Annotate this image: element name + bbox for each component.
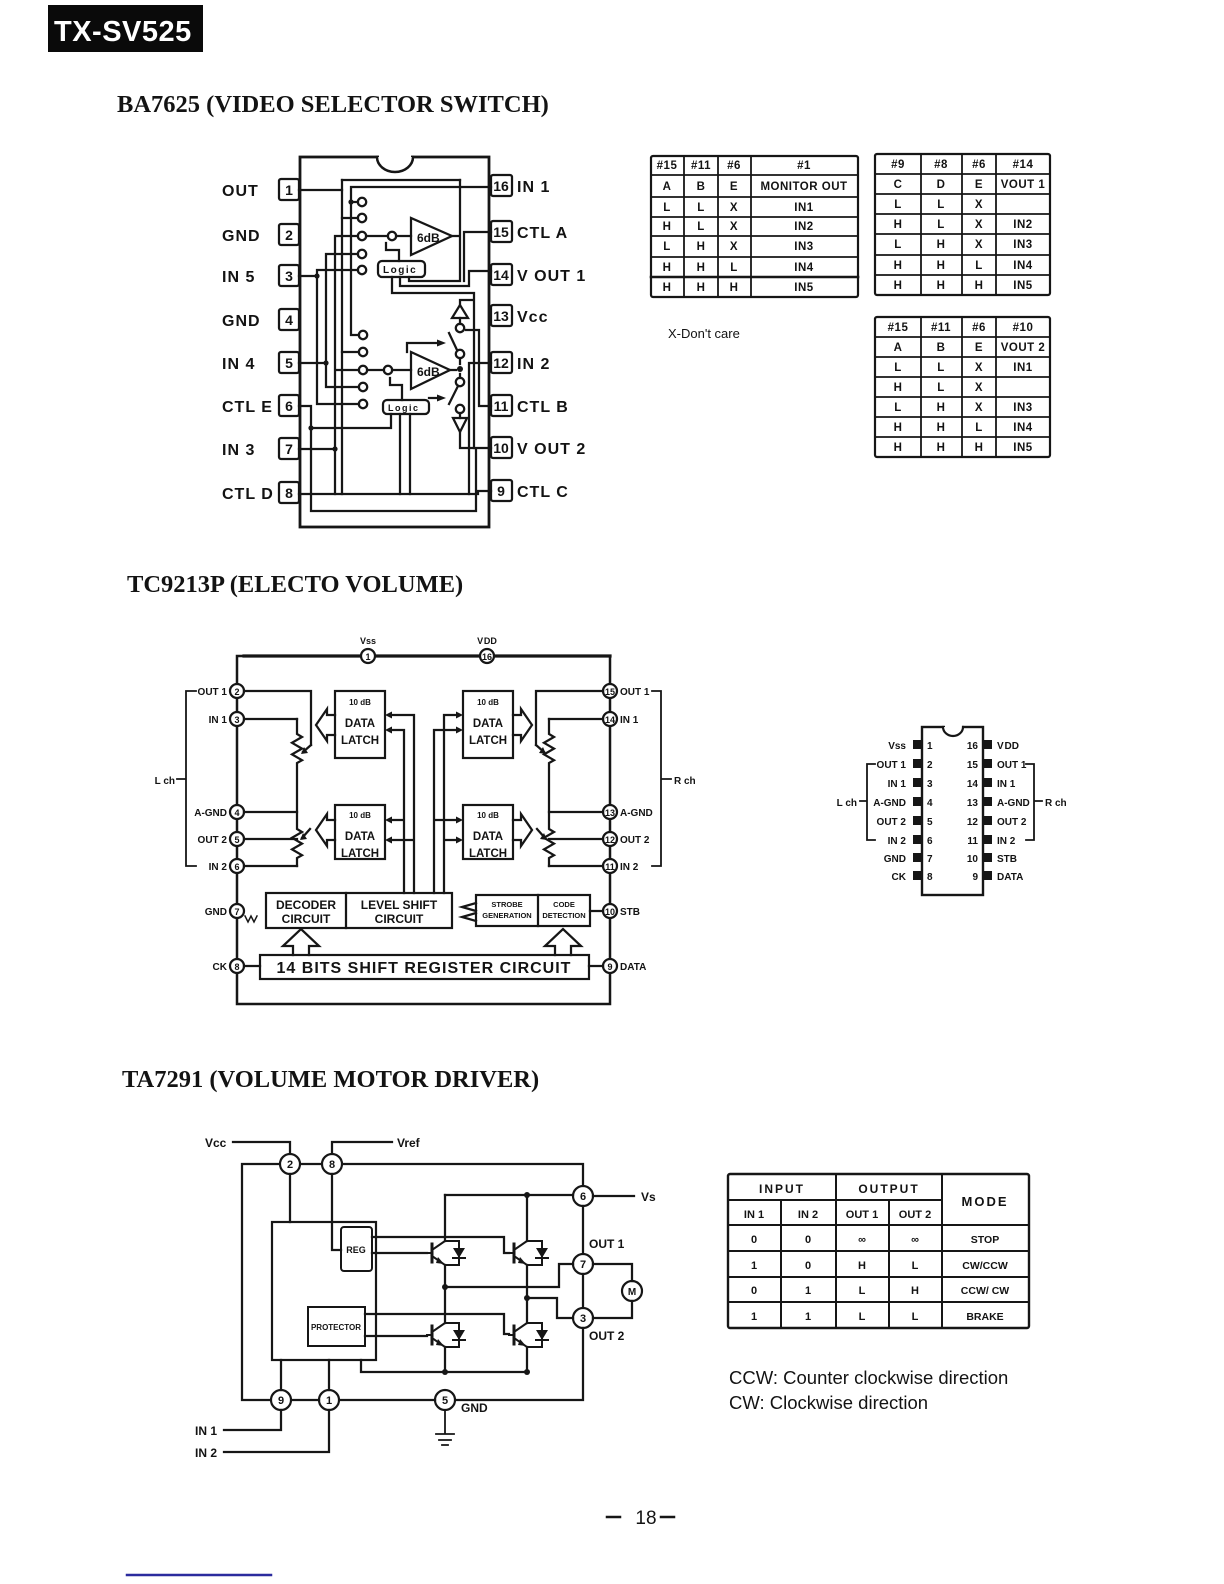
svg-text:IN2: IN2 <box>794 221 813 233</box>
transistor Q1 <box>427 1241 445 1265</box>
svg-text:CCW: Counter clockwise dire: CCW: Counter clockwise direction <box>729 1367 1008 1388</box>
pin 16 Vdd <box>480 649 494 663</box>
wire protector to Q4 base <box>365 1314 509 1334</box>
svg-text:IN 1: IN 1 <box>517 179 550 196</box>
svg-text:LEVEL SHIFT: LEVEL SHIFT <box>361 898 438 912</box>
pin 9 (DATA) right <box>603 959 646 973</box>
svg-text:IN5: IN5 <box>1013 442 1033 454</box>
svg-text:8: 8 <box>285 485 293 501</box>
arrow out of lower R latch <box>513 814 532 846</box>
svg-text:H: H <box>894 442 903 454</box>
ground squiggle at pin7 <box>245 916 257 922</box>
pin 3 (IN 1) dip left <box>888 778 933 790</box>
wire Vref to pin8 <box>332 1142 392 1154</box>
svg-text:OUT 1: OUT 1 <box>997 760 1027 771</box>
pin 16 (V&#8202;DD) dip right <box>967 740 1019 752</box>
arrows strobe to level shift <box>462 903 476 921</box>
svg-text:6dB: 6dB <box>417 231 440 245</box>
svg-text:#1: #1 <box>797 160 811 172</box>
svg-text:H: H <box>937 442 946 454</box>
wire pin6 CTL E to logic2 <box>299 406 391 431</box>
wire pin3 down to gnd bus <box>455 1328 583 1400</box>
svg-text:L: L <box>937 382 945 394</box>
wire OUT2 node to pin3 <box>524 1295 573 1318</box>
svg-text:OUT 2: OUT 2 <box>198 835 228 846</box>
svg-text:B: B <box>937 342 946 354</box>
svg-text:Vss: Vss <box>888 741 906 752</box>
pin 9 (DATA) dip right <box>972 871 1023 883</box>
svg-text:OUT 1: OUT 1 <box>589 1237 625 1251</box>
pin 14 (IN 1) right <box>603 712 639 726</box>
pin 12 (OUT 2) right <box>603 832 650 846</box>
pin 13 (A-GND) right <box>603 805 653 819</box>
svg-text:BA7625 (VIDEO SELECTOR SWITCH): BA7625 (VIDEO SELECTOR SWITCH) <box>117 91 549 118</box>
pin 8 (CK) left <box>213 959 244 973</box>
svg-text:5: 5 <box>234 835 239 845</box>
svg-text:1: 1 <box>365 652 370 662</box>
svg-text:H: H <box>663 282 672 294</box>
svg-text:DATA: DATA <box>473 718 503 730</box>
svg-text:IN 2: IN 2 <box>209 862 228 873</box>
wire bus IN3 branch (x335) + pin7 <box>299 236 359 494</box>
svg-text:R ch: R ch <box>1045 798 1067 809</box>
svg-text:∞: ∞ <box>911 1234 919 1246</box>
svg-text:H: H <box>937 422 946 434</box>
data latch block upper L <box>335 691 385 758</box>
wire pin1 to control block <box>328 1360 330 1390</box>
pin 2 <box>280 1154 300 1174</box>
svg-text:A-GND: A-GND <box>194 808 227 819</box>
svg-text:X: X <box>975 219 983 231</box>
logic block lower <box>383 378 429 414</box>
svg-text:OUT 1: OUT 1 <box>877 760 907 771</box>
pin 12 (IN 2) box <box>491 352 550 373</box>
svg-text:X: X <box>975 382 983 394</box>
wire pin11 CTL B <box>466 330 491 406</box>
wire pin8 CK <box>244 965 260 967</box>
svg-text:IN 1: IN 1 <box>888 779 907 790</box>
svg-text:IN 1: IN 1 <box>209 715 228 726</box>
svg-text:A: A <box>894 342 903 354</box>
svg-text:IN1: IN1 <box>794 202 814 214</box>
pin 4 (A-GND) left <box>194 805 244 819</box>
wire emitter bus to control block <box>361 1360 530 1375</box>
regulator REG block <box>341 1227 372 1271</box>
svg-text:3: 3 <box>927 779 933 790</box>
IC U1 BA7625 body <box>300 152 489 527</box>
node switch contacts upper bank <box>358 198 366 274</box>
svg-text:E: E <box>975 179 983 191</box>
svg-text:1: 1 <box>751 1311 757 1323</box>
pin 13 (A-GND) dip right <box>967 797 1030 809</box>
pin 6 (IN 2) left <box>209 859 244 873</box>
wire inner loop bottom <box>311 190 476 511</box>
svg-text:H: H <box>894 219 903 231</box>
wire inner bus top edge <box>342 179 460 181</box>
svg-text:IN 1: IN 1 <box>744 1209 764 1221</box>
svg-text:#11: #11 <box>691 160 711 172</box>
svg-text:LATCH: LATCH <box>469 735 507 747</box>
diode D1 <box>445 1241 465 1265</box>
svg-text:1: 1 <box>326 1395 332 1407</box>
pin 7 (GND) dip left <box>884 853 933 865</box>
protector block <box>308 1307 365 1346</box>
svg-text:13: 13 <box>493 308 509 324</box>
svg-text:E: E <box>975 342 983 354</box>
svg-text:CIRCUIT: CIRCUIT <box>375 912 424 926</box>
arrow out of upper L latch <box>316 709 335 741</box>
svg-text:LATCH: LATCH <box>469 848 507 860</box>
data latch block lower R <box>463 805 513 860</box>
svg-text:16: 16 <box>493 178 509 194</box>
svg-text:BRAKE: BRAKE <box>966 1311 1003 1323</box>
svg-text:Logic: Logic <box>388 403 420 413</box>
amplifier U1A 6dB (upper) <box>366 218 452 255</box>
pin 5 <box>435 1390 455 1410</box>
svg-text:IN 2: IN 2 <box>195 1446 217 1460</box>
svg-text:STROBE: STROBE <box>491 900 522 909</box>
svg-text:IN 2: IN 2 <box>888 836 907 847</box>
svg-text:GND: GND <box>884 854 906 865</box>
svg-text:L: L <box>937 219 945 231</box>
svg-text:1: 1 <box>927 741 933 752</box>
svg-text:REG: REG <box>346 1245 366 1255</box>
wire bus IN5 branch (x317) + pin3 <box>299 270 359 404</box>
diode D4 <box>527 1323 548 1347</box>
svg-text:10 dB: 10 dB <box>349 698 371 707</box>
IC U2 TC9213P DIP package <box>922 723 983 895</box>
svg-text:H: H <box>937 260 946 272</box>
arrow out of upper R latch <box>513 709 532 741</box>
svg-text:L: L <box>730 262 738 274</box>
svg-text:X: X <box>730 221 738 233</box>
svg-text:A-GND: A-GND <box>620 808 653 819</box>
pin 1 (Vss) dip left <box>888 740 933 752</box>
wire bus IN2 branch (x344) <box>342 218 359 352</box>
svg-text:0: 0 <box>751 1285 757 1297</box>
svg-text:GND: GND <box>222 313 261 330</box>
wire IN2 to pin1 <box>224 1410 329 1452</box>
svg-text:X: X <box>730 202 738 214</box>
wire bus IN4 branch (x326) + pin5 <box>299 254 359 387</box>
pin 6 <box>573 1186 593 1206</box>
svg-text:V DD: V DD <box>997 741 1019 752</box>
svg-text:#6: #6 <box>972 159 986 171</box>
page number dashes <box>607 1516 674 1519</box>
svg-text:6: 6 <box>234 862 239 872</box>
svg-text:IN3: IN3 <box>1013 239 1032 251</box>
pin 13 (Vcc) box <box>491 305 548 326</box>
svg-text:4: 4 <box>927 798 933 809</box>
svg-text:V OUT 2: V OUT 2 <box>517 441 586 458</box>
control block outline <box>272 1222 376 1360</box>
wire pin1 OUT to inner bus <box>299 180 342 190</box>
wire latch control bus R2 <box>444 712 463 894</box>
svg-text:IN 2: IN 2 <box>798 1209 818 1221</box>
transistor Q3 <box>427 1323 445 1347</box>
svg-text:9: 9 <box>607 962 612 972</box>
svg-text:CTL D: CTL D <box>222 486 274 503</box>
svg-text:X: X <box>975 362 983 374</box>
diode D3 <box>445 1323 465 1347</box>
svg-text:GND: GND <box>222 228 261 245</box>
strobe generation / code detection block <box>476 895 590 926</box>
wire pin12 IN 2 <box>469 363 491 494</box>
svg-text:Vcc: Vcc <box>205 1136 227 1150</box>
pin 4 (GND) box <box>222 309 299 330</box>
svg-text:0: 0 <box>751 1234 757 1246</box>
svg-text:H: H <box>911 1285 919 1297</box>
svg-text:GND: GND <box>461 1401 488 1415</box>
svg-text:B: B <box>697 181 706 193</box>
wire logic1 to pin14 V OUT 1 <box>400 271 491 286</box>
svg-text:2: 2 <box>234 687 239 697</box>
svg-text:1: 1 <box>805 1311 811 1323</box>
pin 11 (CTL B) box <box>491 395 569 416</box>
pin 5 (OUT 2) left <box>198 832 244 846</box>
svg-text:13: 13 <box>605 808 615 818</box>
svg-text:VOUT 2: VOUT 2 <box>1001 342 1046 354</box>
svg-text:#11: #11 <box>931 322 951 334</box>
pin 4 (A-GND) dip left <box>873 797 933 809</box>
svg-text:IN2: IN2 <box>1013 219 1032 231</box>
svg-text:10 dB: 10 dB <box>477 698 499 707</box>
wire pin12 OUT2 R <box>549 838 603 840</box>
wire pin2 to outer left rail <box>242 1164 280 1400</box>
svg-text:10: 10 <box>493 440 509 456</box>
svg-text:6: 6 <box>927 836 933 847</box>
svg-text:X: X <box>975 239 983 251</box>
switch chain output triangle <box>453 413 467 432</box>
svg-text:11: 11 <box>494 398 509 414</box>
svg-text:5: 5 <box>442 1395 448 1407</box>
IC U2 TC9213P outline <box>237 656 610 1004</box>
svg-text:12: 12 <box>493 355 509 371</box>
truth table BA7625 monitor out <box>651 156 858 297</box>
svg-text:A-GND: A-GND <box>997 798 1030 809</box>
svg-text:1: 1 <box>285 182 293 198</box>
bracket L ch dip <box>837 764 875 840</box>
svg-text:L: L <box>975 260 983 272</box>
svg-text:IN 2: IN 2 <box>620 862 639 873</box>
svg-text:6: 6 <box>285 398 293 414</box>
bracket L ch <box>155 691 196 866</box>
svg-text:VOUT 1: VOUT 1 <box>1001 179 1046 191</box>
svg-text:TA7291 (VOLUME MOTOR DRIVER): TA7291 (VOLUME MOTOR DRIVER) <box>122 1066 539 1093</box>
pin 15 (CTL A) box <box>491 221 568 242</box>
svg-text:OUT 1: OUT 1 <box>846 1209 878 1221</box>
svg-text:14: 14 <box>967 779 979 790</box>
pin 8 (CK) dip left <box>892 871 933 883</box>
pin 10 (STB) dip right <box>967 853 1017 865</box>
svg-text:TC9213P (ELECTO VOLUME): TC9213P (ELECTO VOLUME) <box>127 571 463 598</box>
svg-text:#14: #14 <box>1013 159 1034 171</box>
svg-text:3: 3 <box>285 268 293 284</box>
svg-text:13: 13 <box>967 798 979 809</box>
svg-text:2: 2 <box>927 760 933 771</box>
svg-text:16: 16 <box>967 741 979 752</box>
svg-text:CCW/ CW: CCW/ CW <box>961 1285 1009 1297</box>
arrow register to code detection <box>545 929 581 955</box>
wire logic2 to bottom bus <box>400 414 410 494</box>
pin 1 <box>319 1390 339 1410</box>
svg-text:Vref: Vref <box>397 1136 421 1150</box>
svg-text:LATCH: LATCH <box>341 735 379 747</box>
svg-text:8: 8 <box>329 1159 335 1171</box>
svg-text:H: H <box>663 221 672 233</box>
svg-text:1: 1 <box>751 1260 757 1272</box>
svg-text:Logic: Logic <box>383 265 417 276</box>
arrow control upper switch <box>407 340 446 353</box>
svg-text:0: 0 <box>805 1260 811 1272</box>
pin 2 (OUT 1) dip left <box>877 759 933 771</box>
switch chain Vcc triangle <box>452 305 468 324</box>
pin 3 <box>573 1308 593 1328</box>
svg-text:11: 11 <box>605 862 615 872</box>
wire latch control bus R1 <box>434 727 463 894</box>
svg-text:V OUT 1: V OUT 1 <box>517 268 586 285</box>
svg-text:9: 9 <box>972 872 978 883</box>
wire pin13 A-GND R <box>549 811 603 813</box>
wire logic1 to Vcc switch rail <box>392 277 474 448</box>
svg-text:8: 8 <box>234 962 239 972</box>
Q2 collector rail <box>526 1195 528 1298</box>
svg-text:MONITOR OUT: MONITOR OUT <box>760 181 847 193</box>
svg-text:CW/CCW: CW/CCW <box>962 1260 1008 1272</box>
svg-text:CTL E: CTL E <box>222 399 273 416</box>
svg-text:#8: #8 <box>934 159 948 171</box>
svg-text:IN4: IN4 <box>1013 422 1033 434</box>
svg-text:H: H <box>937 280 946 292</box>
wire feedback from amp U1A output <box>409 180 460 281</box>
wire pin14 IN1 R <box>549 718 603 720</box>
resistor ladder L ch <box>292 719 302 866</box>
svg-text:DATA: DATA <box>997 872 1023 883</box>
svg-text:IN3: IN3 <box>794 241 813 253</box>
svg-text:L: L <box>894 199 902 211</box>
svg-text:L: L <box>894 362 902 374</box>
svg-text:IN 1: IN 1 <box>997 779 1016 790</box>
svg-text:12: 12 <box>605 835 615 845</box>
wire pin6 to Vs <box>593 1195 634 1197</box>
wire pin4 A-GND L <box>244 811 297 813</box>
wiper arrow lower R <box>537 829 547 840</box>
pin 5 (IN 4) box <box>222 352 299 373</box>
pin 7 (IN 3) box <box>222 438 299 459</box>
svg-text:CTL A: CTL A <box>517 225 568 242</box>
Q4 rails <box>526 1298 528 1372</box>
pin 15 (OUT 1) dip right <box>967 759 1027 771</box>
pin 3 (IN 5) box <box>222 265 299 286</box>
svg-text:14: 14 <box>605 715 615 725</box>
svg-text:CODE: CODE <box>553 900 575 909</box>
wire pin9 DATA <box>589 965 603 967</box>
wire CTL D / CTL C bottom bus <box>299 491 491 494</box>
wire pin2 into control block <box>289 1174 291 1222</box>
wire pin9 to control block <box>280 1360 282 1390</box>
Q1 collector rail <box>444 1195 446 1287</box>
wire pin8 into REG <box>332 1174 341 1250</box>
pin 7 <box>573 1254 593 1274</box>
transistor Q2 <box>509 1241 527 1265</box>
svg-text:OUT 2: OUT 2 <box>620 835 650 846</box>
svg-text:10: 10 <box>605 907 615 917</box>
pin 14 (V OUT 1) box <box>491 264 586 285</box>
svg-text:9: 9 <box>278 1395 284 1407</box>
svg-text:12: 12 <box>967 817 979 828</box>
wire pin2 to pin8 <box>300 1163 322 1165</box>
wire pin2 OUT1 L wiper arrow <box>244 691 311 754</box>
arrow out of lower L latch <box>316 814 335 846</box>
svg-text:OUTPUT: OUTPUT <box>858 1182 919 1196</box>
svg-text:2: 2 <box>285 227 293 243</box>
wire pin15 CTL A <box>464 232 491 281</box>
svg-text:H: H <box>937 402 946 414</box>
pin 10 (V OUT 2) box <box>491 437 586 458</box>
arrow register to decoder <box>283 929 319 955</box>
svg-text:#9: #9 <box>891 159 905 171</box>
svg-text:#6: #6 <box>727 160 741 172</box>
svg-text:DECODER: DECODER <box>276 898 336 912</box>
bracket R ch <box>652 691 696 866</box>
node amp2 output junction <box>450 358 463 378</box>
wire pin16 IN1 net <box>348 187 491 335</box>
svg-text:CIRCUIT: CIRCUIT <box>282 912 331 926</box>
svg-text:3: 3 <box>580 1313 586 1325</box>
pin 6 (CTL E) box <box>222 395 299 416</box>
svg-text:OUT 2: OUT 2 <box>899 1209 931 1221</box>
svg-text:5: 5 <box>285 355 293 371</box>
wire REG to Q2 base <box>372 1237 509 1253</box>
pin 16 (IN 1) box <box>491 175 550 196</box>
truth table BA7625 vout1 <box>875 154 1050 295</box>
svg-text:LATCH: LATCH <box>341 848 379 860</box>
pin 9 <box>271 1390 291 1410</box>
svg-text:L: L <box>859 1311 866 1323</box>
svg-text:Vs: Vs <box>641 1190 656 1204</box>
svg-text:OUT 1: OUT 1 <box>620 687 650 698</box>
svg-text:IN4: IN4 <box>1013 260 1033 272</box>
pin 1 (OUT) box <box>222 179 299 200</box>
bracket R ch dip <box>1026 764 1067 840</box>
model name plate TX-SV525 <box>48 5 203 52</box>
svg-text:4: 4 <box>285 312 293 328</box>
svg-text:6dB: 6dB <box>417 365 440 379</box>
svg-text:IN1: IN1 <box>1013 362 1033 374</box>
svg-text:L: L <box>937 199 945 211</box>
svg-text:#6: #6 <box>972 322 986 334</box>
svg-text:Vcc: Vcc <box>517 309 548 326</box>
svg-text:#15: #15 <box>657 160 678 172</box>
svg-text:IN 1: IN 1 <box>195 1424 217 1438</box>
svg-text:IN 4: IN 4 <box>222 356 255 373</box>
svg-text:PROTECTOR: PROTECTOR <box>311 1323 361 1332</box>
svg-text:TX-SV525: TX-SV525 <box>54 16 192 48</box>
svg-text:3: 3 <box>234 715 239 725</box>
pin 8 <box>322 1154 342 1174</box>
wire pin5 to pin1 <box>339 1399 435 1401</box>
svg-text:H: H <box>894 280 903 292</box>
svg-text:H: H <box>697 282 706 294</box>
wire switch output to pin10 V OUT 2 <box>460 432 491 448</box>
svg-text:DATA: DATA <box>345 831 375 843</box>
svg-text:H: H <box>937 239 946 251</box>
svg-text:OUT 2: OUT 2 <box>589 1329 625 1343</box>
svg-text:L: L <box>912 1311 919 1323</box>
svg-text:IN 3: IN 3 <box>222 442 255 459</box>
pin 15 (OUT 1) right <box>603 684 650 698</box>
wire Vcc to pin2 <box>233 1142 290 1154</box>
